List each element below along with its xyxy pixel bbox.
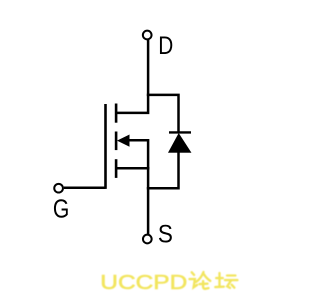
wire: diode anode down to source branch — [147, 152, 179, 188]
terminal D (circle) — [143, 31, 152, 40]
watermark text UCCPD — [100, 271, 237, 294]
svg-text:G: G — [53, 195, 69, 223]
diode D1 anode triangle — [169, 134, 191, 153]
MOSFET M1 channel segment (body) — [115, 132, 118, 151]
watermark hanzi TAN (yun right) — [227, 274, 235, 276]
wire: source lead — [115, 167, 149, 170]
watermark hanzi TAN (earth radical) — [215, 273, 237, 288]
diode D1 cathode bar — [169, 131, 191, 133]
wire: gate lead from G terminal — [64, 186, 106, 189]
wire: body connection and source vertical down to S terminal — [121, 140, 148, 234]
MOSFET M1 channel segment (source) — [115, 159, 118, 178]
svg-text:UCCPD: UCCPD — [100, 271, 187, 294]
terminal G (circle) — [54, 184, 63, 193]
watermark hanzi LUN (ren top) — [196, 272, 203, 282]
svg-text:S: S — [158, 220, 173, 248]
wire: branch from drain wire to body-diode cathode — [147, 95, 179, 132]
watermark hanzi LUN (bi bottom) — [200, 283, 208, 286]
terminal S (circle) — [143, 235, 152, 244]
svg-text:D: D — [158, 31, 173, 59]
MOSFET M1 gate bar — [104, 104, 107, 189]
MOSFET M1 channel segment (drain) — [115, 104, 118, 123]
body arrow (points to channel) — [117, 135, 130, 147]
wire: drain vertical from D terminal down to drain lead corner — [115, 40, 148, 113]
watermark hanzi LUN (speech radical) — [190, 272, 211, 289]
